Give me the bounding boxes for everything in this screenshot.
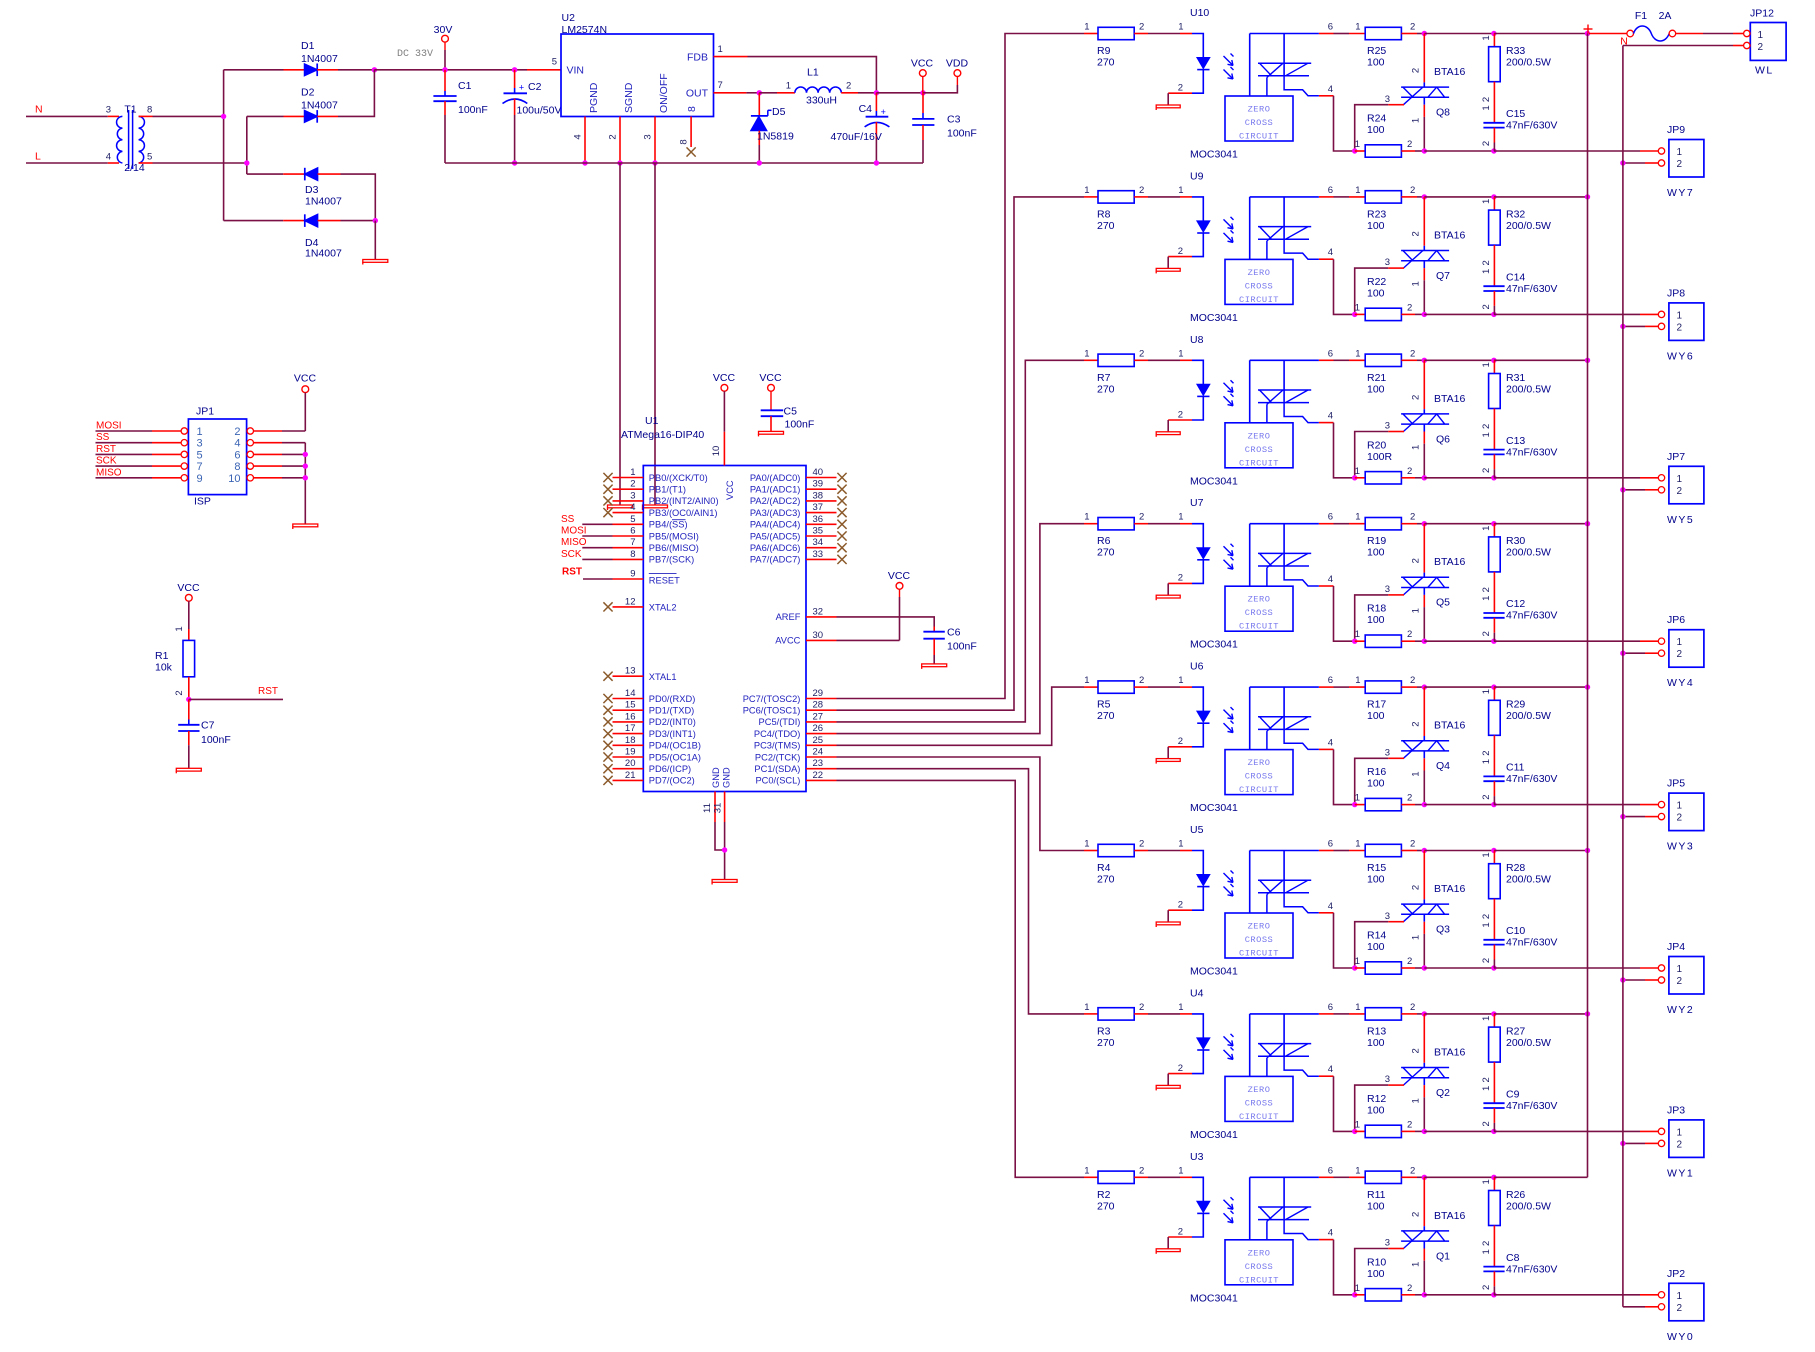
svg-text:100: 100 bbox=[1367, 874, 1385, 886]
wire WL bus bbox=[1587, 34, 1589, 1178]
triac Q8 BTA16 bbox=[1401, 34, 1465, 152]
wire D3 anode riser bbox=[318, 174, 376, 221]
optocoupler U7 MOC3041 bbox=[1168, 512, 1319, 587]
wire U5 pin 4 to bottom rail bbox=[1334, 913, 1355, 968]
svg-text:SCK: SCK bbox=[561, 549, 582, 560]
node 30V/C1 junction bbox=[442, 67, 447, 72]
wire JP1 pin 2 to VCC bbox=[247, 428, 305, 434]
node N junction on left leg bbox=[221, 114, 226, 119]
svg-text:Q2: Q2 bbox=[1436, 1087, 1450, 1099]
wire R8 to opto U9 pin 1 bbox=[1148, 196, 1180, 198]
node snubber R32 junction bbox=[1491, 194, 1496, 199]
red cross marker at WL bus top bbox=[1584, 25, 1593, 34]
svg-text:100: 100 bbox=[1367, 220, 1385, 232]
svg-text:16: 16 bbox=[625, 711, 636, 722]
no-connect X pin 39 bbox=[837, 485, 846, 494]
connector JP12 WL bbox=[1744, 8, 1787, 77]
svg-text:2: 2 bbox=[1407, 466, 1412, 477]
resistor R9 270 bbox=[1084, 22, 1148, 69]
svg-text:2: 2 bbox=[1677, 1139, 1683, 1150]
no-connect X pin 34 bbox=[837, 543, 846, 552]
svg-text:4: 4 bbox=[630, 502, 635, 513]
pin 11 31 GND labels inside U1 bbox=[711, 767, 732, 788]
capacitor C8 47nF/630V bbox=[1481, 1249, 1557, 1295]
wire top rail to bus bbox=[1494, 1176, 1588, 1178]
wire PC0 to channel R2 bbox=[837, 780, 1085, 1177]
svg-text:2: 2 bbox=[1407, 139, 1412, 150]
svg-text:C6: C6 bbox=[947, 627, 961, 639]
svg-text:7: 7 bbox=[197, 461, 203, 473]
svg-text:1: 1 bbox=[1084, 185, 1089, 196]
svg-text:1: 1 bbox=[1355, 466, 1360, 477]
no-connect X pin 4 bbox=[603, 508, 612, 517]
svg-text:2: 2 bbox=[1139, 675, 1144, 686]
wire gate of Q1 to R10 bbox=[1355, 1238, 1404, 1295]
svg-text:R10: R10 bbox=[1367, 1256, 1386, 1268]
node ON/OFF junction bbox=[652, 160, 657, 165]
svg-text:2: 2 bbox=[1677, 976, 1683, 987]
optocoupler U8 MOC3041 bbox=[1168, 348, 1319, 423]
pin 16 PD2/(INT0) bbox=[613, 711, 696, 727]
wire D4 node to ground bbox=[374, 221, 376, 260]
svg-text:2: 2 bbox=[1677, 486, 1683, 497]
triac Q4 BTA16 bbox=[1401, 687, 1465, 805]
zero cross circuit box of U10 bbox=[1225, 96, 1293, 142]
svg-text:CIRCUIT: CIRCUIT bbox=[1239, 1112, 1279, 1122]
svg-text:1: 1 bbox=[1355, 185, 1360, 196]
wire top rail to bus bbox=[1494, 523, 1588, 525]
svg-text:R17: R17 bbox=[1367, 699, 1386, 711]
svg-text:1: 1 bbox=[1178, 1002, 1183, 1013]
svg-text:ZERO: ZERO bbox=[1248, 431, 1271, 441]
svg-text:2: 2 bbox=[1139, 512, 1144, 523]
zero cross circuit box of U6 bbox=[1225, 750, 1293, 796]
wire opto U10 pin 2 to ground bbox=[1167, 93, 1169, 105]
pin 20 PD6/(ICP) bbox=[613, 758, 692, 774]
svg-text:R31: R31 bbox=[1506, 372, 1525, 384]
svg-text:270: 270 bbox=[1097, 710, 1115, 722]
node gate/R16 junction bbox=[1352, 802, 1357, 807]
svg-text:WY5: WY5 bbox=[1667, 514, 1694, 526]
svg-text:PA2/(ADC2): PA2/(ADC2) bbox=[750, 496, 800, 506]
node C4 ground junction bbox=[874, 160, 879, 165]
svg-text:C15: C15 bbox=[1506, 108, 1525, 120]
svg-text:D2: D2 bbox=[301, 87, 315, 99]
wire bottom rail to snubber bbox=[1424, 313, 1494, 315]
svg-text:2: 2 bbox=[1407, 302, 1412, 313]
ground under C7 bbox=[176, 768, 201, 773]
svg-text:6: 6 bbox=[1328, 1002, 1333, 1013]
svg-text:1: 1 bbox=[1178, 185, 1183, 196]
node C15 junction bbox=[1491, 148, 1496, 153]
svg-text:1: 1 bbox=[1355, 1119, 1360, 1130]
resistor R13 100 bbox=[1349, 1002, 1417, 1049]
svg-text:PC7/(TOSC2): PC7/(TOSC2) bbox=[743, 694, 801, 704]
ground under opto U7 bbox=[1156, 595, 1180, 600]
svg-text:1: 1 bbox=[630, 467, 635, 478]
svg-text:1: 1 bbox=[1677, 1127, 1683, 1138]
svg-text:CROSS: CROSS bbox=[1245, 281, 1274, 291]
svg-text:47nF/630V: 47nF/630V bbox=[1506, 610, 1557, 622]
svg-text:WY0: WY0 bbox=[1667, 1331, 1694, 1343]
svg-text:8: 8 bbox=[147, 105, 152, 116]
svg-text:2: 2 bbox=[1139, 1165, 1144, 1176]
svg-text:SGND: SGND bbox=[623, 82, 635, 113]
pin 6 of U4 bbox=[1319, 1002, 1334, 1014]
svg-text:2: 2 bbox=[1178, 83, 1183, 94]
svg-text:100: 100 bbox=[1367, 547, 1385, 559]
svg-text:5: 5 bbox=[552, 56, 557, 67]
svg-text:CROSS: CROSS bbox=[1245, 1098, 1274, 1108]
svg-text:1: 1 bbox=[718, 44, 723, 55]
svg-text:4: 4 bbox=[1328, 247, 1333, 258]
svg-text:R29: R29 bbox=[1506, 699, 1525, 711]
pin 14 PD0/(RXD) bbox=[613, 688, 696, 704]
pin 13 XTAL1 bbox=[613, 666, 677, 682]
wire to D4 cathode bbox=[224, 220, 305, 222]
svg-text:2: 2 bbox=[1411, 1212, 1422, 1217]
wire U7 pin 6 to R19 bbox=[1334, 523, 1350, 525]
wire net SCK to U1 bbox=[582, 558, 612, 560]
svg-text:N: N bbox=[35, 104, 43, 116]
svg-text:2: 2 bbox=[1407, 1283, 1412, 1294]
svg-text:1: 1 bbox=[1677, 964, 1683, 975]
svg-text:19: 19 bbox=[625, 747, 636, 758]
svg-text:1: 1 bbox=[1355, 1002, 1360, 1013]
resistor R1 10k bbox=[155, 626, 195, 699]
svg-text:4: 4 bbox=[1328, 1064, 1333, 1075]
wire R2 to opto U3 pin 1 bbox=[1148, 1176, 1180, 1178]
pin 4 of U7 bbox=[1319, 574, 1334, 586]
svg-text:100: 100 bbox=[1367, 287, 1385, 299]
node R23/Q7 junction bbox=[1422, 194, 1427, 199]
capacitor C4 470uF/16V bbox=[831, 93, 890, 163]
wire U10 pin 4 to bottom rail bbox=[1334, 96, 1355, 151]
pin 6 of U3 bbox=[1319, 1165, 1334, 1177]
svg-text:SS: SS bbox=[96, 432, 110, 443]
svg-text:100nF: 100nF bbox=[785, 419, 815, 431]
svg-text:R16: R16 bbox=[1367, 766, 1386, 778]
wire R12 to bottom rail bbox=[1415, 1130, 1424, 1132]
svg-text:BTA16: BTA16 bbox=[1434, 66, 1465, 78]
wire PC6 to channel R8 bbox=[837, 197, 1085, 710]
node Q5 MT1 junction bbox=[1422, 639, 1427, 644]
svg-text:2: 2 bbox=[1481, 260, 1492, 265]
wire R17 to top rail bbox=[1417, 686, 1424, 688]
pin 37 PA3/(ADC3) bbox=[750, 502, 837, 518]
wire N bus to JP7 pin 2 bbox=[1623, 489, 1658, 491]
svg-text:WY2: WY2 bbox=[1667, 1004, 1694, 1016]
svg-text:PC3/(TMS): PC3/(TMS) bbox=[754, 741, 801, 751]
wire U5 pin 6 to R15 bbox=[1334, 850, 1350, 852]
wire opto U8 pin 2 to ground bbox=[1167, 420, 1169, 432]
resistor R28 200/0.5W bbox=[1481, 851, 1551, 940]
svg-text:PB7/(SCK): PB7/(SCK) bbox=[649, 555, 694, 565]
svg-text:1: 1 bbox=[1355, 1283, 1360, 1294]
wire R16 to bottom rail bbox=[1415, 804, 1424, 806]
svg-text:Q7: Q7 bbox=[1436, 270, 1450, 282]
pin 6 of U6 bbox=[1319, 675, 1334, 687]
node SGND junction bbox=[617, 160, 622, 165]
svg-text:1: 1 bbox=[1677, 1291, 1683, 1302]
wire N bus to JP6 pin 2 bbox=[1623, 652, 1658, 654]
svg-text:AREF: AREF bbox=[776, 612, 801, 622]
power port VCC at U1 pin 10 bbox=[711, 372, 736, 466]
wire U8 pin 6 to R21 bbox=[1334, 359, 1350, 361]
node C9 junction bbox=[1491, 1129, 1496, 1134]
svg-text:2: 2 bbox=[1481, 750, 1492, 755]
svg-text:SS: SS bbox=[561, 514, 575, 525]
svg-text:20: 20 bbox=[625, 758, 636, 769]
svg-text:U5: U5 bbox=[1190, 824, 1204, 836]
svg-text:15: 15 bbox=[625, 700, 636, 711]
svg-text:1: 1 bbox=[1355, 302, 1360, 313]
svg-text:6: 6 bbox=[1328, 512, 1333, 523]
svg-text:2: 2 bbox=[1178, 1226, 1183, 1237]
svg-text:1N4007: 1N4007 bbox=[301, 100, 338, 112]
pin 40 PA0/(ADC0) bbox=[750, 467, 837, 483]
zero cross circuit box of U9 bbox=[1225, 259, 1293, 305]
capacitor C12 47nF/630V bbox=[1481, 596, 1557, 642]
no-connect X pin 33 bbox=[837, 555, 846, 564]
svg-text:R13: R13 bbox=[1367, 1025, 1386, 1037]
pin 8 PB7/(SCK) bbox=[613, 549, 695, 565]
svg-text:CIRCUIT: CIRCUIT bbox=[1239, 622, 1279, 632]
svg-text:1: 1 bbox=[1481, 1086, 1492, 1091]
wire PC2 to channel R4 bbox=[837, 757, 1085, 851]
svg-text:3: 3 bbox=[1385, 584, 1390, 595]
svg-text:R5: R5 bbox=[1097, 699, 1111, 711]
wire bottom rail to snubber bbox=[1424, 640, 1494, 642]
wire OUT pin to D5 node bbox=[714, 92, 760, 94]
triac Q3 BTA16 bbox=[1401, 851, 1465, 969]
capacitor C15 47nF/630V bbox=[1481, 105, 1557, 151]
svg-text:2: 2 bbox=[1407, 956, 1412, 967]
wire SGND to ground bbox=[619, 163, 621, 505]
svg-text:9: 9 bbox=[630, 569, 635, 580]
svg-text:PB2/(INT2/AIN0): PB2/(INT2/AIN0) bbox=[649, 496, 719, 506]
svg-text:2: 2 bbox=[1139, 839, 1144, 850]
svg-text:U6: U6 bbox=[1190, 661, 1204, 673]
svg-text:1: 1 bbox=[1411, 445, 1422, 450]
svg-text:C11: C11 bbox=[1506, 762, 1525, 774]
svg-text:1: 1 bbox=[1481, 269, 1492, 274]
node snubber R33 junction bbox=[1491, 31, 1496, 36]
svg-text:SCK: SCK bbox=[96, 456, 117, 467]
svg-text:PD5/(OC1A): PD5/(OC1A) bbox=[649, 752, 701, 762]
capacitor C6 100nF bbox=[923, 627, 976, 664]
svg-text:1: 1 bbox=[1411, 118, 1422, 123]
svg-text:1: 1 bbox=[1677, 474, 1683, 485]
svg-text:11: 11 bbox=[702, 803, 713, 813]
node gate/R24 junction bbox=[1352, 148, 1357, 153]
capacitor C3 100nF bbox=[912, 93, 977, 163]
svg-text:100nF: 100nF bbox=[201, 734, 231, 746]
svg-text:PD2/(INT0): PD2/(INT0) bbox=[649, 717, 696, 727]
wire net SS to U1 bbox=[582, 523, 612, 525]
resistor R32 200/0.5W bbox=[1481, 197, 1551, 286]
svg-text:VIN: VIN bbox=[567, 64, 585, 76]
svg-text:2: 2 bbox=[1481, 1077, 1492, 1082]
svg-text:6: 6 bbox=[1328, 348, 1333, 359]
svg-text:1: 1 bbox=[1481, 105, 1492, 110]
svg-text:270: 270 bbox=[1097, 1200, 1115, 1212]
wire bottom rail to JP5 pin 1 bbox=[1494, 804, 1658, 806]
wire top rail to bus bbox=[1494, 359, 1588, 361]
wire MISO to JP1 pin 9 bbox=[96, 475, 188, 481]
wire U3 pin 6 to R11 bbox=[1334, 1176, 1350, 1178]
svg-text:270: 270 bbox=[1097, 874, 1115, 886]
pin 15 PD1/(TXD) bbox=[613, 700, 695, 716]
pin 6 of U8 bbox=[1319, 348, 1334, 360]
connector JP7 bbox=[1658, 451, 1704, 526]
no-connect X pin 2 bbox=[603, 485, 612, 494]
node D3-D4 junction bbox=[373, 218, 378, 223]
svg-text:MISO: MISO bbox=[561, 537, 587, 548]
node Q3 MT1 junction bbox=[1422, 965, 1427, 970]
wire to D1 anode bbox=[224, 69, 305, 71]
node R17/Q4 junction bbox=[1422, 684, 1427, 689]
wire gate of Q5 to R18 bbox=[1355, 584, 1404, 641]
svg-text:R14: R14 bbox=[1367, 930, 1386, 942]
svg-text:1: 1 bbox=[1084, 675, 1089, 686]
wire DC 33V rail to VIN bbox=[374, 69, 561, 71]
wire gate of Q7 to R22 bbox=[1355, 257, 1404, 314]
node C2 top junction bbox=[512, 67, 517, 72]
svg-text:2: 2 bbox=[1178, 573, 1183, 584]
ground under opto U3 bbox=[1156, 1249, 1180, 1254]
pin 35 PA5/(ADC5) bbox=[750, 526, 837, 542]
resistor R17 100 bbox=[1349, 675, 1417, 722]
svg-text:VCC: VCC bbox=[177, 582, 200, 594]
svg-text:5: 5 bbox=[197, 449, 203, 461]
optocoupler U5 MOC3041 bbox=[1168, 839, 1319, 914]
pin 38 PA2/(ADC2) bbox=[750, 490, 837, 506]
svg-text:R12: R12 bbox=[1367, 1093, 1386, 1105]
wire bottom rail to snubber bbox=[1424, 150, 1494, 152]
svg-text:3: 3 bbox=[197, 438, 203, 450]
svg-text:2: 2 bbox=[1677, 1303, 1683, 1314]
svg-text:1: 1 bbox=[1481, 689, 1492, 694]
svg-text:R33: R33 bbox=[1506, 45, 1525, 57]
capacitor C14 47nF/630V bbox=[1481, 269, 1557, 315]
svg-text:47nF/630V: 47nF/630V bbox=[1506, 773, 1557, 785]
svg-text:31: 31 bbox=[713, 803, 724, 814]
node RST junction bbox=[186, 697, 191, 702]
svg-text:CIRCUIT: CIRCUIT bbox=[1239, 1275, 1279, 1285]
fuse F1 2A bbox=[1627, 10, 1676, 41]
svg-text:100: 100 bbox=[1367, 614, 1385, 626]
wire U9 pin 6 to R23 bbox=[1334, 196, 1350, 198]
svg-text:PD6/(ICP): PD6/(ICP) bbox=[649, 764, 691, 774]
node N bus at JP3 bbox=[1620, 1141, 1625, 1146]
node C11 junction bbox=[1491, 802, 1496, 807]
wire top rail to snubber bbox=[1424, 33, 1494, 35]
wire U4 pin 6 to R13 bbox=[1334, 1013, 1350, 1015]
svg-text:R2: R2 bbox=[1097, 1189, 1111, 1201]
resistor R31 200/0.5W bbox=[1481, 360, 1551, 449]
svg-text:1N4007: 1N4007 bbox=[301, 53, 338, 65]
wire PC7 to channel R9 bbox=[837, 34, 1085, 699]
resistor R14 100 bbox=[1355, 930, 1415, 975]
svg-text:4: 4 bbox=[1328, 1228, 1333, 1239]
svg-text:PA6/(ADC6): PA6/(ADC6) bbox=[750, 543, 800, 553]
svg-text:PB5/(MOSI): PB5/(MOSI) bbox=[649, 531, 699, 541]
svg-text:CIRCUIT: CIRCUIT bbox=[1239, 949, 1279, 959]
pin 6 PB5/(MOSI) bbox=[613, 526, 699, 542]
svg-text:R18: R18 bbox=[1367, 603, 1386, 615]
svg-text:VCC: VCC bbox=[294, 373, 317, 385]
wire N bus to JP2 pin 2 bbox=[1623, 1306, 1658, 1308]
svg-text:D5: D5 bbox=[772, 106, 786, 118]
node gate/R22 junction bbox=[1352, 312, 1357, 317]
svg-text:C5: C5 bbox=[784, 406, 798, 418]
svg-text:47nF/630V: 47nF/630V bbox=[1506, 1100, 1557, 1112]
svg-text:Q4: Q4 bbox=[1436, 760, 1450, 772]
svg-text:1: 1 bbox=[1677, 637, 1683, 648]
svg-text:C8: C8 bbox=[1506, 1252, 1520, 1264]
svg-text:JP3: JP3 bbox=[1667, 1104, 1685, 1116]
resistor R19 100 bbox=[1349, 512, 1417, 559]
connector JP9 bbox=[1658, 124, 1704, 199]
svg-text:1: 1 bbox=[1355, 348, 1360, 359]
svg-text:33: 33 bbox=[813, 549, 824, 560]
svg-text:4: 4 bbox=[573, 134, 584, 139]
node N bus at JP9 bbox=[1620, 160, 1625, 165]
wire PC4 to channel R6 bbox=[837, 524, 1085, 734]
svg-text:2: 2 bbox=[1407, 1119, 1412, 1130]
wire bottom rail to snubber bbox=[1424, 1130, 1494, 1132]
pin 26 PC4/(TDO) bbox=[754, 723, 837, 739]
svg-text:1: 1 bbox=[1355, 675, 1360, 686]
pin 9 RESET bbox=[613, 569, 681, 586]
svg-text:1: 1 bbox=[1178, 675, 1183, 686]
wire bottom rail to JP2 pin 1 bbox=[1494, 1294, 1658, 1296]
node R15/Q3 junction bbox=[1422, 848, 1427, 853]
pin 4 of U3 bbox=[1319, 1228, 1334, 1240]
pin 4 of U9 bbox=[1319, 247, 1334, 259]
no-connect X pin 1 bbox=[603, 473, 612, 482]
svg-text:U10: U10 bbox=[1190, 7, 1209, 19]
svg-text:CROSS: CROSS bbox=[1245, 772, 1274, 782]
node U1 ground junction bbox=[722, 847, 727, 852]
diode D5 1N5819 bbox=[751, 93, 794, 163]
ground under opto U9 bbox=[1156, 268, 1180, 273]
wire R13 to top rail bbox=[1417, 1013, 1424, 1015]
wire R23 to top rail bbox=[1417, 196, 1424, 198]
svg-text:4: 4 bbox=[106, 152, 111, 163]
connector JP1 ISP bbox=[188, 406, 246, 508]
capacitor C1 100nF bbox=[433, 70, 487, 163]
svg-text:6: 6 bbox=[1328, 22, 1333, 33]
svg-text:JP4: JP4 bbox=[1667, 941, 1685, 953]
svg-text:MOC3041: MOC3041 bbox=[1190, 312, 1238, 324]
wire bottom rail to JP6 pin 1 bbox=[1494, 640, 1658, 642]
wire U8 pin 4 to bottom rail bbox=[1334, 423, 1355, 478]
wire PC5 to channel R7 bbox=[837, 360, 1085, 722]
resistor R10 100 bbox=[1355, 1256, 1415, 1301]
triac Q1 BTA16 bbox=[1401, 1177, 1465, 1295]
wire gate of Q6 to R20 bbox=[1355, 421, 1404, 478]
svg-text:270: 270 bbox=[1097, 383, 1115, 395]
svg-text:VCC: VCC bbox=[759, 372, 782, 384]
svg-text:WL: WL bbox=[1755, 65, 1774, 77]
svg-text:34: 34 bbox=[813, 537, 824, 548]
connector JP4 bbox=[1658, 941, 1704, 1016]
node snubber R29 junction bbox=[1491, 684, 1496, 689]
svg-text:100: 100 bbox=[1367, 383, 1385, 395]
pin 25 PC3/(TMS) bbox=[754, 735, 837, 751]
